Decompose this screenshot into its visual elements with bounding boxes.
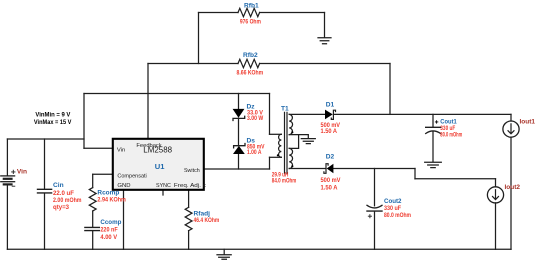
schottky bar Ds (234, 144, 245, 148)
svg-text:80.0 mOhm: 80.0 mOhm (384, 212, 411, 219)
capacitor Cin (38, 189, 52, 193)
svg-text:22.0 uF: 22.0 uF (53, 190, 74, 197)
wire: output2 from secondary B to D2 (289, 168, 326, 170)
wire: clamp to switch wire (238, 154, 240, 169)
current source Iout1 (503, 121, 519, 137)
wire: clamp branch upper (238, 94, 240, 110)
capacitor Cout2 plates (367, 205, 382, 208)
resistor Rcomp (89, 188, 96, 211)
wire: Rfb1 ground stub (324, 13, 326, 38)
ground (bottom rail) (217, 255, 231, 259)
wire: switch wire from U1 to primary (204, 168, 270, 170)
wire: ground stub on bottom rail (223, 249, 225, 254)
wire: U1 FreqAdj pin down (188, 190, 190, 207)
schottky bar D1 (331, 110, 335, 119)
wire: U1 SYNC stub (162, 190, 164, 195)
svg-text:Vin: Vin (117, 147, 125, 153)
wire: Vin pin wire (84, 147, 113, 149)
svg-text:220 nF: 220 nF (100, 227, 117, 234)
wire: Cout2 branch top (374, 169, 376, 206)
wire: primary top vertical (269, 94, 271, 135)
wire: battery top lead (6, 139, 8, 175)
svg-text:8.66 KOhm: 8.66 KOhm (237, 70, 264, 77)
svg-text:Freq. Adj. c: Freq. Adj. c (174, 183, 206, 189)
resistor Rfb1 (238, 8, 260, 16)
battery minus sign (12, 185, 15, 187)
svg-text:976 Ohm: 976 Ohm (240, 19, 261, 26)
svg-text:3.00 W: 3.00 W (247, 115, 264, 122)
wire: Rfadj to rail (188, 231, 190, 250)
T1 phase dot primary (277, 154, 279, 156)
wire: secondary bracket (289, 135, 298, 149)
wire: Cout2 bottom (374, 211, 376, 249)
wire: Rfb1 left segment (199, 12, 239, 14)
svg-text:Ccomp: Ccomp (100, 219, 121, 226)
svg-text:1.50 A: 1.50 A (321, 184, 338, 191)
op-amp U1 LM2588 block (113, 139, 204, 190)
transformer T1 primary winding (279, 134, 282, 157)
svg-text:Iout2: Iout2 (505, 184, 521, 191)
wire: Iout2 bottom lead (495, 203, 497, 250)
wire: top-left horizontal from battery to riser (7, 138, 84, 140)
Cout2 plus sign (368, 215, 371, 218)
wire: secondary center tap to ground (299, 135, 309, 139)
battery plus sign (12, 170, 15, 173)
wire: Rfb2 to output1 vertical (389, 64, 391, 115)
Cout1 plus sign (435, 120, 438, 123)
svg-text:Cin: Cin (53, 182, 64, 189)
svg-text:VinMin = 9 V: VinMin = 9 V (35, 112, 71, 119)
capacitor Ccomp (85, 227, 99, 230)
svg-text:84.0 mOhm: 84.0 mOhm (272, 178, 297, 185)
svg-text:D2: D2 (326, 153, 335, 160)
svg-text:2.00 mOhm: 2.00 mOhm (53, 197, 82, 204)
transformer T1 secondary winding A (289, 114, 292, 134)
T1 phase dot secondary A (291, 131, 293, 133)
svg-text:500 mV: 500 mV (321, 177, 342, 184)
wire: Ccomp to rail (92, 231, 94, 249)
transformer T1 core (285, 112, 288, 173)
resistor Rfadj (185, 207, 192, 230)
schottky diode D2 (327, 164, 334, 174)
svg-text:1.00 A: 1.00 A (247, 149, 262, 156)
T1 phase dot secondary B (291, 165, 293, 167)
svg-text:T1: T1 (281, 105, 289, 112)
wire: into Iout2 top (495, 179, 497, 187)
svg-text:4.00 V: 4.00 V (100, 234, 117, 241)
wire: battery bottom lead (6, 185, 8, 249)
svg-text:80.0 mOhm: 80.0 mOhm (440, 132, 462, 139)
svg-text:D1: D1 (326, 101, 335, 108)
svg-text:Rfb1: Rfb1 (244, 2, 259, 9)
current source Iout2 (487, 187, 503, 203)
wire: Rfb2 left segment (148, 63, 238, 65)
wire: primary bottom stub (270, 156, 282, 158)
wire: Rfb2 right segment (260, 63, 390, 65)
svg-text:Compensati: Compensati (117, 173, 146, 179)
schottky bar D2 (324, 164, 328, 174)
transformer T1 secondary winding B (289, 148, 292, 168)
wire: top rail (84, 93, 270, 95)
svg-text:Rfb2: Rfb2 (243, 52, 258, 59)
resistor Rfb2 (238, 59, 260, 67)
svg-text:VinMax = 15 V: VinMax = 15 V (34, 119, 72, 126)
ground (T1 center tap) (301, 139, 315, 144)
wire: Iout1 bottom lead (510, 137, 512, 249)
svg-text:1.50 A: 1.50 A (321, 128, 338, 135)
ground (Cout1) (425, 162, 442, 167)
svg-text:GND: GND (117, 183, 130, 189)
svg-text:qty=3: qty=3 (53, 204, 69, 211)
schottky diode Ds (233, 146, 245, 154)
wire: Rcomp to Ccomp (92, 211, 94, 227)
wire: Cin branch bottom (44, 193, 46, 249)
svg-text:46.4 KOhm: 46.4 KOhm (194, 217, 220, 224)
zener bar Dz (233, 116, 245, 120)
svg-text:LM2588: LM2588 (143, 144, 172, 154)
ground (Rfb1) (318, 38, 331, 44)
capacitor Cout1 plates (426, 126, 441, 128)
wire: into Iout1 top (510, 114, 512, 121)
wire: riser x=84 from top rail to Vin pin (83, 94, 85, 149)
wire: primary top stub (270, 133, 282, 135)
svg-text:Iout1: Iout1 (520, 119, 536, 126)
wire: Rfb1 right segment (260, 12, 325, 14)
svg-text:SYNC: SYNC (156, 183, 172, 189)
wire: primary bottom vertical (269, 157, 271, 169)
wire: output2 from D2 to step (334, 168, 416, 170)
wire: bottom rail (7, 248, 511, 250)
wire: step down (414, 169, 416, 179)
wire: Cin branch top (44, 139, 46, 189)
wire: feedback vertical (147, 64, 149, 139)
wire: Cout1 branch top (432, 114, 434, 126)
wire: Rfb1 left vertical (198, 13, 200, 64)
schottky diode D1 (325, 110, 333, 120)
wire: Cout1 to ground (432, 132, 434, 162)
wire: clamp between Dz and Ds (238, 118, 240, 145)
zener diode Dz (233, 109, 245, 118)
wire: Rcomp top lead (92, 174, 94, 187)
wire: output1 from D1 to Iout1 (334, 113, 511, 115)
svg-text:U1: U1 (155, 162, 165, 171)
svg-text:Vin: Vin (17, 168, 27, 175)
wire: U1 GND pin to rail (123, 190, 125, 249)
wire: Compensati pin wire (93, 173, 113, 175)
svg-text:2.94 KOhm: 2.94 KOhm (97, 196, 126, 203)
battery V1 Vin (1, 176, 15, 185)
svg-text:Switch: Switch (184, 168, 200, 174)
wire: step horizontal to Iout2 (415, 178, 496, 180)
wire: output1 from secondary to D1 (289, 113, 325, 115)
